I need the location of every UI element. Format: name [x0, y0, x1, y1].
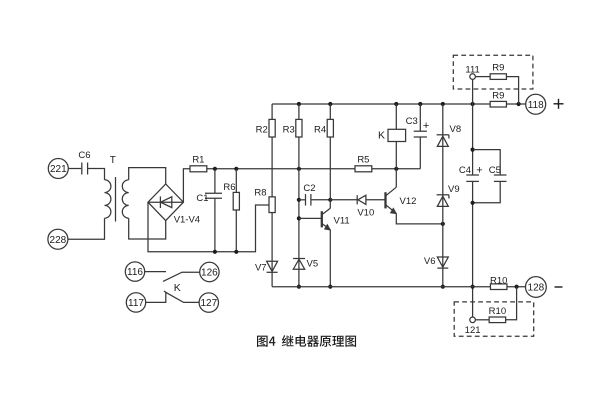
svg-text:111: 111 — [465, 64, 479, 75]
svg-text:R9: R9 — [492, 91, 504, 102]
svg-text:R4: R4 — [314, 125, 326, 136]
svg-text:127: 127 — [200, 298, 217, 309]
svg-text:117: 117 — [128, 298, 144, 309]
svg-text:R8: R8 — [254, 187, 266, 198]
svg-text:C1: C1 — [196, 193, 208, 204]
svg-text:V1-V4: V1-V4 — [174, 214, 200, 225]
svg-text:K: K — [378, 130, 385, 142]
svg-text:V9: V9 — [448, 184, 460, 195]
svg-text:116: 116 — [127, 267, 143, 278]
svg-text:228: 228 — [50, 235, 67, 246]
svg-text:T: T — [110, 155, 116, 166]
svg-text:K: K — [174, 282, 181, 294]
svg-text:V11: V11 — [334, 216, 350, 227]
svg-text:C5: C5 — [489, 165, 501, 176]
svg-text:R6: R6 — [223, 182, 235, 193]
svg-text:C2: C2 — [303, 183, 315, 194]
svg-text:C6: C6 — [78, 150, 90, 161]
svg-text:V5: V5 — [307, 258, 319, 269]
svg-text:R1: R1 — [192, 154, 204, 165]
svg-text:R2: R2 — [256, 125, 268, 136]
svg-text:118: 118 — [528, 100, 544, 111]
svg-text:R5: R5 — [357, 154, 369, 165]
svg-text:221: 221 — [50, 164, 67, 175]
svg-text:+: + — [476, 165, 482, 177]
svg-text:V8: V8 — [450, 124, 462, 135]
svg-text:V10: V10 — [357, 208, 374, 219]
svg-text:R10: R10 — [490, 275, 507, 286]
svg-text:C4: C4 — [459, 165, 471, 176]
svg-text:C3: C3 — [406, 116, 418, 127]
svg-text:R10: R10 — [489, 306, 506, 317]
svg-text:V7: V7 — [255, 263, 267, 274]
svg-text:+: + — [423, 120, 429, 132]
svg-text:126: 126 — [201, 268, 218, 279]
svg-text:V12: V12 — [400, 196, 417, 207]
svg-text:128: 128 — [528, 283, 545, 294]
svg-text:121: 121 — [465, 325, 481, 336]
svg-text:R9: R9 — [492, 62, 504, 73]
svg-text:V6: V6 — [424, 256, 436, 267]
svg-text:R3: R3 — [283, 125, 295, 136]
